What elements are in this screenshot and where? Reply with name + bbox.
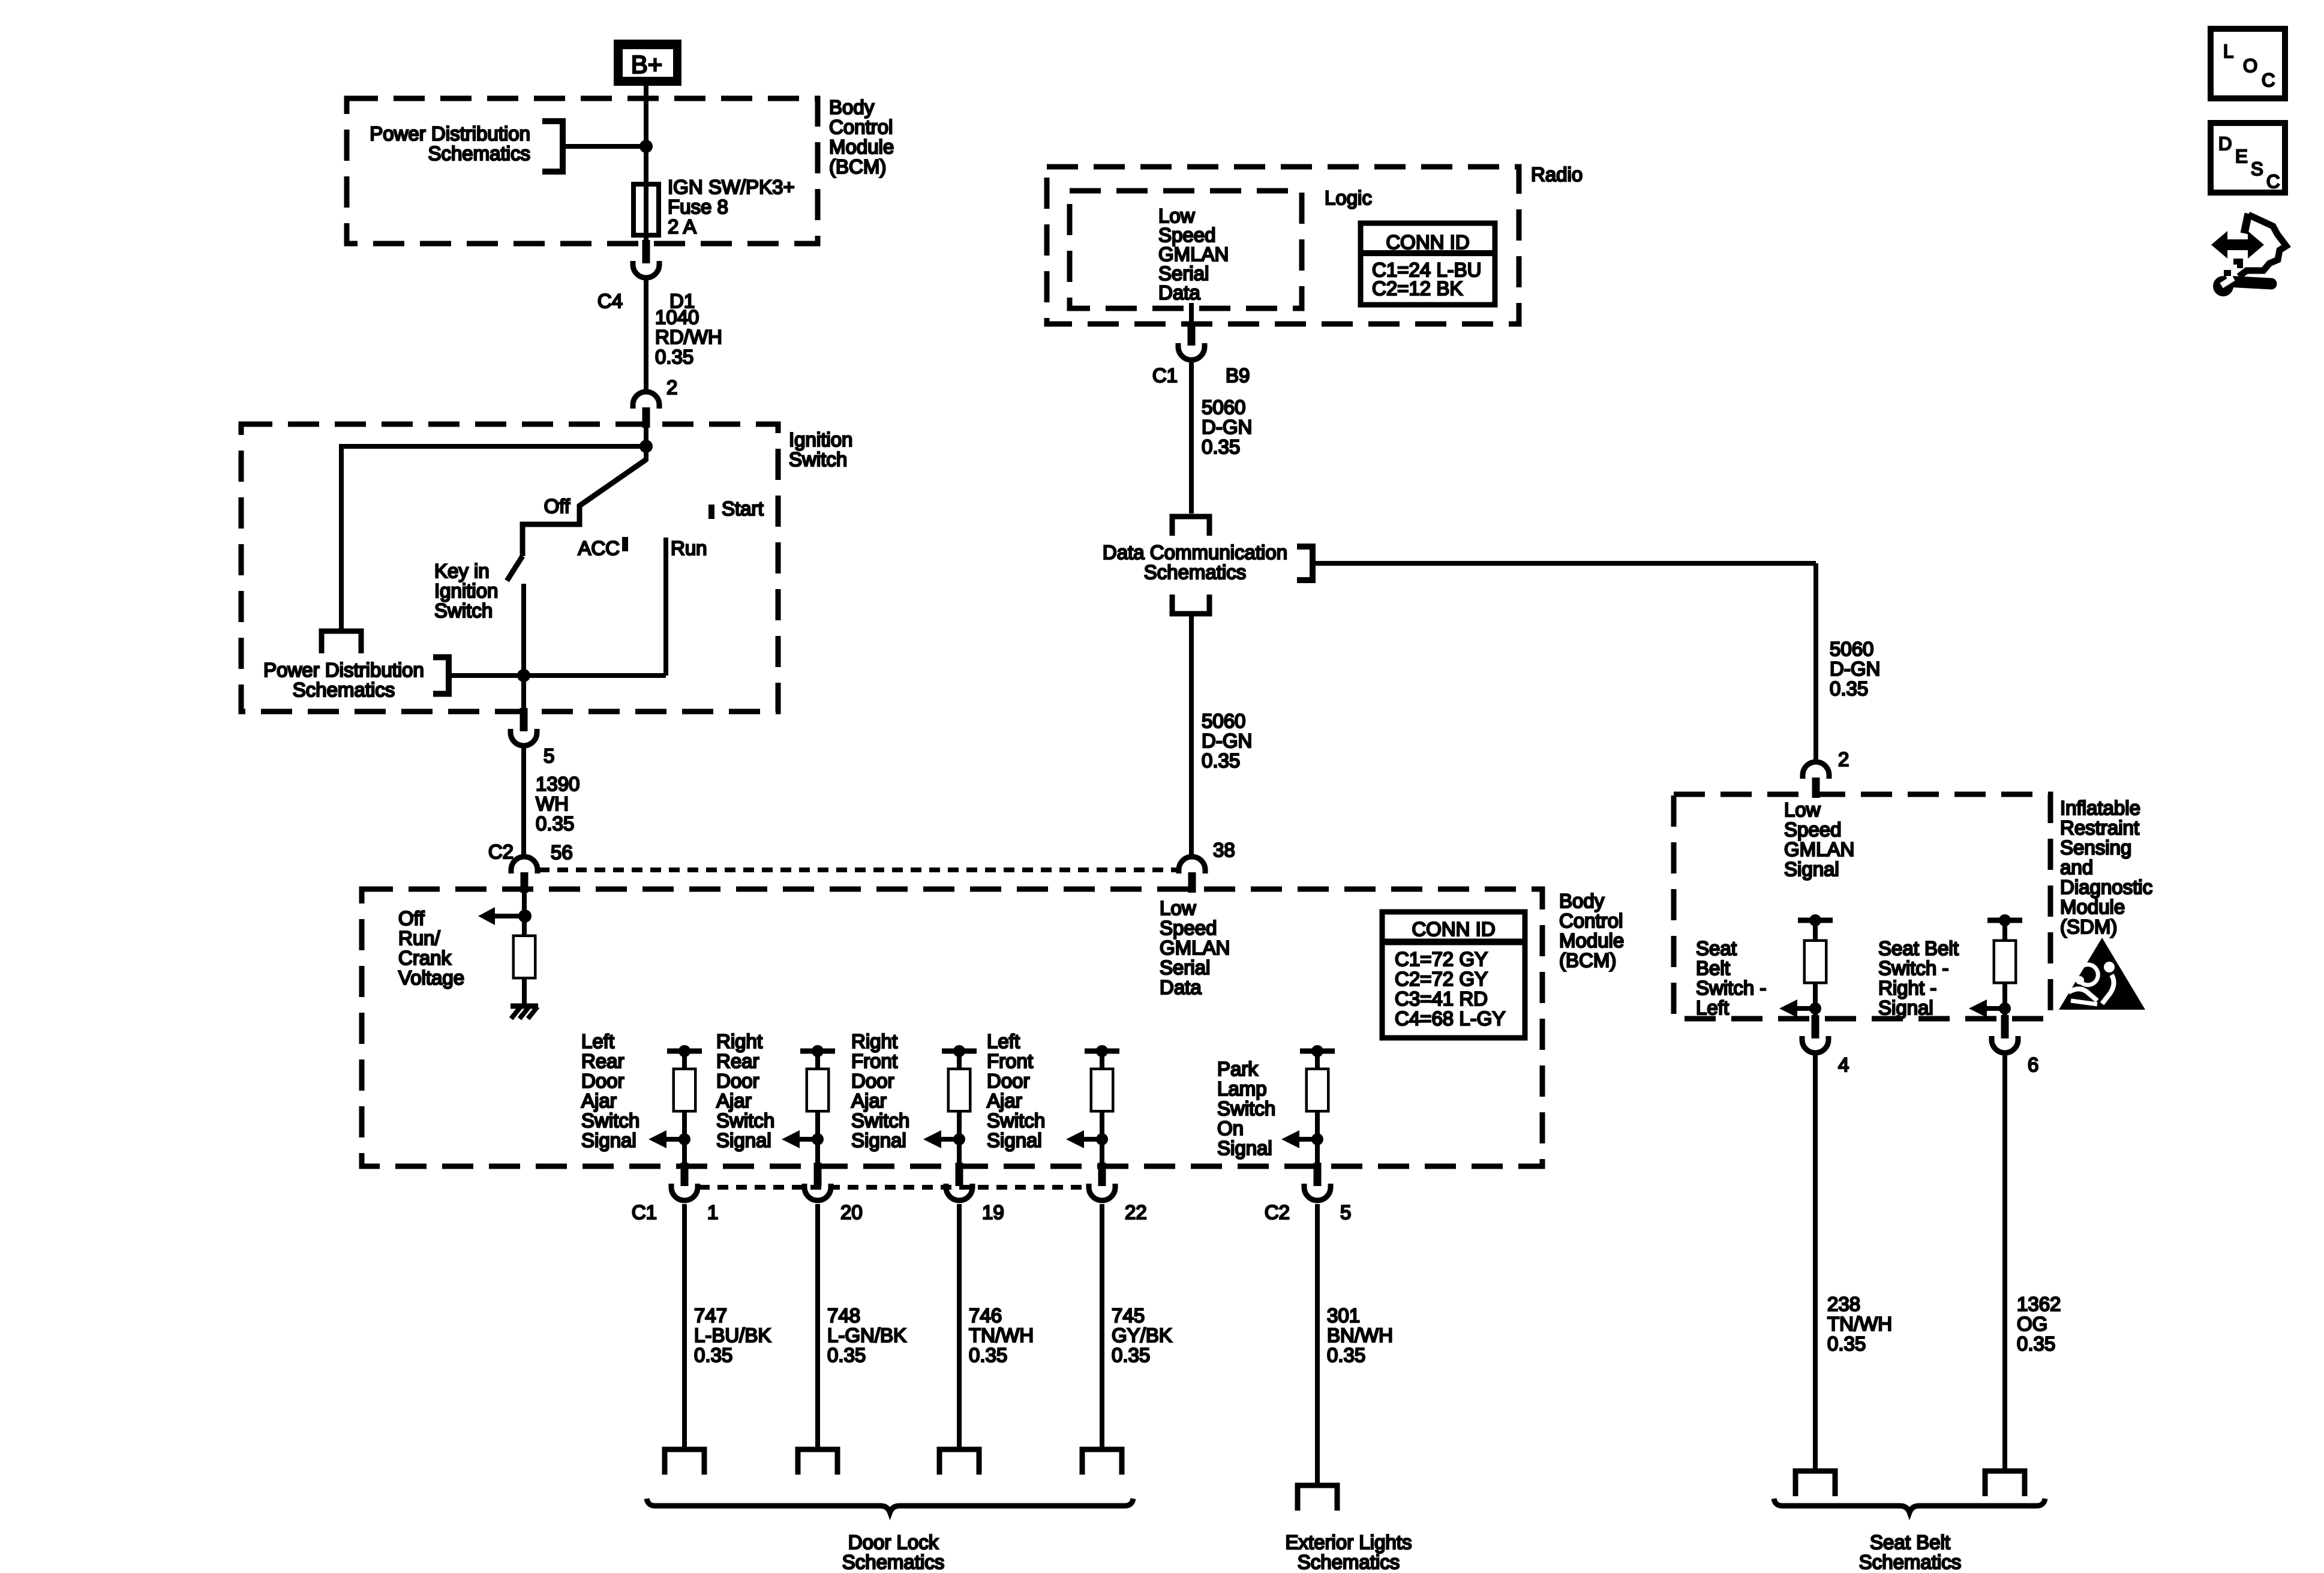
svg-text:Key in: Key in (434, 560, 490, 582)
bus dotted line across door ajar pins (699, 1185, 1088, 1190)
connector C4 / pin D1 (642, 240, 650, 263)
wire splice to BCM pin 38 (1189, 614, 1194, 855)
svg-text:Logic: Logic (1325, 187, 1372, 209)
svg-text:0.35: 0.35 (1202, 749, 1240, 772)
terminal (exterior lights schematics) (1298, 1485, 1337, 1511)
svg-text:747: 747 (694, 1304, 727, 1326)
module box Inflatable Restraint Sensing and Diagnostic Module (SDM) (1674, 794, 2050, 1019)
svg-text:Diagnostic: Diagnostic (2060, 876, 2152, 898)
wire 301 BN/WH (1315, 1204, 1320, 1485)
svg-text:(SDM): (SDM) (2060, 915, 2117, 938)
svg-text:5: 5 (544, 745, 554, 767)
terminal (door lock schematics) (939, 1449, 979, 1475)
submodule box Logic (1070, 191, 1302, 308)
svg-text:C2=72 GY: C2=72 GY (1395, 968, 1488, 990)
svg-text:Run: Run (671, 537, 707, 559)
module box Ignition Switch (241, 424, 778, 712)
wire 747 L-BU/BK (682, 1204, 687, 1449)
svg-text:38: 38 (1213, 839, 1235, 861)
svg-text:0.35: 0.35 (536, 812, 574, 834)
power symbol B+ (614, 40, 681, 86)
svg-text:6: 6 (2028, 1053, 2038, 1076)
node ignition feed junction (639, 440, 653, 453)
svg-text:Switch -: Switch - (1696, 977, 1766, 999)
svg-text:(BCM): (BCM) (1559, 949, 1616, 971)
svg-text:D-GN: D-GN (1830, 658, 1880, 680)
wire B+ feed (644, 86, 648, 244)
svg-text:Signal: Signal (987, 1129, 1042, 1151)
svg-text:Right -: Right - (1878, 977, 1936, 999)
icon LOC box (2211, 29, 2285, 98)
connector pin 19 (956, 1163, 963, 1186)
svg-text:Switch -: Switch - (1878, 957, 1948, 979)
svg-text:B+: B+ (631, 50, 663, 79)
svg-text:Schematics: Schematics (1144, 561, 1247, 583)
svg-text:19: 19 (982, 1201, 1004, 1223)
wire resistor to ground (522, 977, 527, 1006)
svg-text:20: 20 (840, 1201, 863, 1223)
svg-text:IGN SW/PK3+: IGN SW/PK3+ (668, 176, 795, 198)
wire 1040 RD/WH (644, 278, 648, 393)
svg-text:Front: Front (851, 1050, 897, 1072)
seat belt switch left branch (1779, 914, 1833, 1019)
svg-text:0.35: 0.35 (1327, 1344, 1365, 1366)
svg-text:Ignition: Ignition (434, 580, 498, 602)
svg-text:C: C (2262, 70, 2275, 91)
svg-text:0.35: 0.35 (1202, 436, 1240, 458)
svg-text:D-GN: D-GN (1202, 416, 1252, 438)
svg-text:Power Distribution: Power Distribution (370, 122, 530, 145)
svg-text:748: 748 (827, 1304, 860, 1326)
svg-text:Park: Park (1217, 1058, 1258, 1080)
connector pin 6 (SDM) (2001, 1015, 2009, 1038)
svg-text:Switch: Switch (1217, 1097, 1275, 1119)
svg-text:Signal: Signal (1784, 858, 1839, 880)
svg-text:Rear: Rear (716, 1050, 759, 1072)
svg-text:Rear: Rear (581, 1050, 624, 1072)
svg-text:Module: Module (2060, 896, 2125, 918)
svg-text:745: 745 (1112, 1304, 1145, 1326)
bus dotted line C2-56 to pin 38 (539, 867, 1178, 872)
connector pin 4 (SDM) (1812, 1015, 1819, 1038)
svg-text:2: 2 (1838, 748, 1849, 770)
wire SDM pin 4 down (1813, 1053, 1818, 1471)
svg-text:Serial: Serial (1160, 956, 1210, 978)
svg-text:Voltage: Voltage (398, 966, 464, 989)
svg-text:Control: Control (829, 116, 893, 138)
module box Body Control Module (BCM) bottom (362, 889, 1542, 1166)
svg-text:Schematics: Schematics (428, 142, 530, 164)
svg-text:0.35: 0.35 (655, 346, 693, 368)
svg-text:56: 56 (551, 841, 573, 863)
svg-text:OG: OG (2017, 1313, 2047, 1335)
svg-text:TN/WH: TN/WH (1827, 1313, 1892, 1335)
svg-text:Sensing: Sensing (2060, 836, 2131, 858)
connector pin 2 (SDM) (1803, 762, 1829, 779)
svg-text:C4=68 L-GY: C4=68 L-GY (1395, 1007, 1505, 1029)
terminal (door lock schematics) (665, 1449, 704, 1475)
svg-text:GMLAN: GMLAN (1784, 838, 1854, 860)
resistor (BCM pull-up) (515, 937, 534, 977)
svg-text:L-BU/BK: L-BU/BK (694, 1324, 771, 1346)
svg-text:Signal: Signal (716, 1129, 771, 1151)
svg-text:Low: Low (1784, 798, 1821, 821)
svg-text:Door: Door (716, 1070, 759, 1092)
svg-text:Door: Door (851, 1070, 894, 1092)
svg-text:Schematics: Schematics (842, 1551, 945, 1573)
connector pin 5 (ignition switch output) (520, 708, 528, 731)
svg-text:5060: 5060 (1830, 638, 1873, 660)
connector pin 1 (681, 1163, 689, 1186)
svg-text:Left: Left (581, 1030, 614, 1052)
svg-text:Signal: Signal (1217, 1137, 1272, 1159)
left front door ajar switch signal branch (1066, 1045, 1119, 1166)
svg-text:C4: C4 (597, 290, 623, 312)
connector C1 / pin B9 (radio) (1188, 322, 1196, 346)
fuse IGN SW/PK3+ Fuse 8 2A (633, 184, 659, 235)
svg-text:Off: Off (544, 495, 571, 517)
left rear door ajar switch signal branch (648, 1045, 702, 1166)
svg-text:C1=72 GY: C1=72 GY (1395, 948, 1488, 970)
terminal (seat belt schematics) (1985, 1471, 2025, 1496)
svg-text:Door: Door (581, 1070, 624, 1092)
svg-text:0.35: 0.35 (1112, 1344, 1150, 1366)
svg-text:Seat Belt: Seat Belt (1878, 937, 1959, 959)
svg-text:RD/WH: RD/WH (655, 326, 722, 348)
svg-text:4: 4 (1838, 1053, 1849, 1076)
wire from C2-56 to voltage divider (522, 893, 527, 937)
svg-text:Switch: Switch (716, 1109, 774, 1131)
svg-text:Speed: Speed (1160, 917, 1217, 939)
svg-text:Control: Control (1559, 909, 1623, 932)
ground symbol (511, 1006, 538, 1019)
svg-text:L-GN/BK: L-GN/BK (827, 1324, 906, 1346)
svg-text:Switch: Switch (851, 1109, 909, 1131)
svg-text:Front: Front (987, 1050, 1033, 1072)
svg-text:E: E (2235, 146, 2248, 167)
wire horizontal rail to Run contact (449, 673, 666, 678)
node Off Run/Crank Voltage tap (518, 909, 532, 923)
svg-text:1040: 1040 (655, 306, 699, 328)
right rear door ajar switch signal branch (782, 1045, 835, 1166)
svg-text:5: 5 (1340, 1201, 1351, 1223)
connector pin 2 (ignition switch) (633, 392, 659, 409)
brace Seat Belt Schematics (1774, 1499, 2045, 1512)
svg-text:D: D (2218, 133, 2232, 154)
svg-text:Data Communication: Data Communication (1103, 541, 1287, 563)
svg-text:BN/WH: BN/WH (1327, 1324, 1393, 1346)
svg-text:Seat Belt: Seat Belt (1870, 1531, 1950, 1553)
svg-text:Ajar: Ajar (987, 1089, 1022, 1112)
svg-text:Inflatable: Inflatable (2060, 797, 2140, 819)
svg-text:746: 746 (969, 1304, 1002, 1326)
switch movable arm (Key in Ignition Switch) (507, 556, 523, 581)
svg-text:0.35: 0.35 (694, 1344, 732, 1366)
terminal to Power Distribution Schematics (upper) (322, 631, 361, 653)
svg-text:TN/WH: TN/WH (969, 1324, 1034, 1346)
svg-text:C2: C2 (1265, 1201, 1290, 1223)
seat belt switch right branch (1969, 914, 2022, 1019)
svg-text:Ajar: Ajar (581, 1089, 617, 1112)
svg-text:0.35: 0.35 (969, 1344, 1007, 1366)
svg-text:Switch: Switch (987, 1109, 1045, 1131)
svg-text:0.35: 0.35 (2017, 1332, 2055, 1355)
wire switch output (521, 584, 526, 712)
svg-text:Radio: Radio (1531, 163, 1583, 185)
svg-text:(BCM): (BCM) (829, 155, 886, 178)
svg-text:Crank: Crank (398, 947, 452, 969)
svg-text:1362: 1362 (2017, 1293, 2061, 1315)
wire GMLAN bus to SDM (1313, 561, 1816, 566)
svg-text:Data: Data (1158, 281, 1200, 304)
svg-text:Schematics: Schematics (1298, 1551, 1400, 1573)
svg-text:Right: Right (716, 1030, 762, 1052)
svg-text:C: C (2266, 171, 2280, 192)
svg-text:C2=12 BK: C2=12 BK (1372, 277, 1463, 299)
svg-text:ACC: ACC (578, 537, 620, 559)
svg-text:Signal: Signal (851, 1129, 906, 1151)
svg-text:Ajar: Ajar (851, 1089, 887, 1112)
svg-text:C1: C1 (632, 1201, 657, 1223)
connector pin 20 (814, 1163, 822, 1186)
svg-text:C3=41 RD: C3=41 RD (1395, 987, 1488, 1010)
connector pin 5 (1314, 1163, 1322, 1186)
svg-text:CONN ID: CONN ID (1386, 231, 1469, 253)
signal arrow Off Run/Crank Voltage (495, 914, 525, 918)
svg-text:Speed: Speed (1784, 818, 1841, 840)
svg-text:C1: C1 (1152, 364, 1178, 386)
svg-text:Switch: Switch (789, 448, 847, 470)
svg-text:Lamp: Lamp (1217, 1077, 1267, 1100)
svg-text:C2: C2 (488, 840, 514, 863)
label Start and contact tick (708, 505, 714, 519)
park lamp switch signal branch (1281, 1045, 1335, 1166)
svg-text:Module: Module (1559, 929, 1624, 951)
icon DESC box (2211, 123, 2285, 193)
wire ignition feed into switch (644, 428, 648, 461)
svg-text:D-GN: D-GN (1202, 730, 1252, 752)
svg-text:WH: WH (536, 792, 569, 815)
wire 1390 WH (521, 746, 526, 857)
svg-text:Restraint: Restraint (2060, 816, 2139, 839)
svg-text:2 A: 2 A (668, 215, 696, 238)
wire bracket to B+ node (563, 144, 646, 149)
svg-text:5060: 5060 (1202, 710, 1245, 732)
svg-text:5060: 5060 (1202, 396, 1245, 418)
node switch output junction (517, 669, 530, 682)
svg-text:O: O (2243, 55, 2257, 76)
svg-text:Switch: Switch (581, 1109, 639, 1131)
svg-text:Off: Off (398, 907, 425, 929)
svg-text:Signal: Signal (581, 1129, 636, 1151)
svg-text:0.35: 0.35 (1830, 677, 1868, 700)
svg-text:Module: Module (829, 136, 894, 158)
svg-text:Power Distribution: Power Distribution (263, 659, 424, 681)
wire 746 TN/WH (957, 1204, 962, 1449)
svg-text:Body: Body (1559, 890, 1605, 912)
svg-text:1390: 1390 (536, 773, 580, 795)
wire junction to left branch (341, 444, 646, 449)
svg-text:GY/BK: GY/BK (1112, 1324, 1172, 1346)
svg-text:Low: Low (1160, 897, 1196, 919)
wire 5060 D-GN (radio to splice) (1189, 360, 1194, 514)
terminal (door lock schematics) (798, 1449, 837, 1475)
svg-text:Exterior Lights: Exterior Lights (1286, 1531, 1412, 1553)
connector pin 38 (BCM GMLAN) (1179, 857, 1205, 873)
svg-text:Ignition: Ignition (789, 428, 852, 451)
off-page reference Data Communication Schematics (1172, 517, 1209, 536)
svg-text:238: 238 (1827, 1293, 1860, 1315)
svg-text:S: S (2251, 158, 2263, 179)
terminal (seat belt schematics) (1795, 1471, 1835, 1496)
table CONN ID (BCM connectors) (1382, 912, 1525, 1038)
svg-text:301: 301 (1327, 1304, 1360, 1326)
switch ignition rotor Off contact (523, 460, 646, 556)
svg-text:0.35: 0.35 (827, 1344, 866, 1366)
svg-text:Left: Left (1696, 996, 1729, 1019)
warning triangle SIR symbol (2059, 938, 2145, 1010)
svg-text:GMLAN: GMLAN (1160, 936, 1230, 959)
svg-text:Left: Left (987, 1030, 1020, 1052)
node junction on B+ feed (639, 140, 653, 153)
svg-text:Ajar: Ajar (716, 1089, 752, 1112)
svg-text:Belt: Belt (1696, 957, 1730, 979)
table CONN ID (radio connectors) (1361, 223, 1495, 305)
brace Door Lock Schematics (647, 1499, 1133, 1512)
svg-text:B9: B9 (1226, 364, 1250, 386)
module box Radio (1047, 167, 1519, 324)
wire radio GMLAN out (1189, 303, 1194, 326)
terminal (door lock schematics) (1082, 1449, 1122, 1475)
svg-text:1: 1 (707, 1201, 718, 1223)
connector C2 / pin 56 (BCM) (511, 857, 538, 873)
svg-text:Schematics: Schematics (293, 679, 395, 701)
svg-text:Schematics: Schematics (1859, 1551, 1962, 1573)
svg-text:Switch: Switch (434, 599, 493, 622)
wire 748 L-GN/BK (815, 1204, 820, 1449)
svg-text:Door: Door (987, 1070, 1030, 1092)
connector pin 22 (1098, 1163, 1106, 1186)
svg-text:CONN ID: CONN ID (1412, 918, 1495, 940)
svg-text:Run/: Run/ (398, 927, 441, 949)
wire 745 GY/BK (1100, 1204, 1104, 1449)
svg-text:2: 2 (666, 376, 677, 398)
svg-text:and: and (2060, 856, 2093, 878)
svg-text:Right: Right (851, 1030, 897, 1052)
svg-text:Start: Start (722, 497, 764, 520)
svg-text:Door Lock: Door Lock (848, 1531, 939, 1553)
module box Body Control Module (BCM) top (347, 98, 818, 244)
svg-text:On: On (1217, 1117, 1244, 1139)
svg-text:Fuse 8: Fuse 8 (668, 196, 728, 218)
wire SDM pin 6 down (2002, 1053, 2007, 1471)
icon connector-view arrow + wrench (2211, 214, 2286, 296)
svg-text:Data: Data (1160, 976, 1202, 998)
svg-text:Seat: Seat (1696, 937, 1737, 959)
right front door ajar switch signal branch (923, 1045, 977, 1166)
svg-text:L: L (2223, 41, 2233, 62)
svg-text:0.35: 0.35 (1827, 1332, 1866, 1355)
svg-text:22: 22 (1125, 1201, 1147, 1223)
svg-text:Signal: Signal (1878, 996, 1933, 1019)
svg-text:Body: Body (829, 96, 875, 118)
